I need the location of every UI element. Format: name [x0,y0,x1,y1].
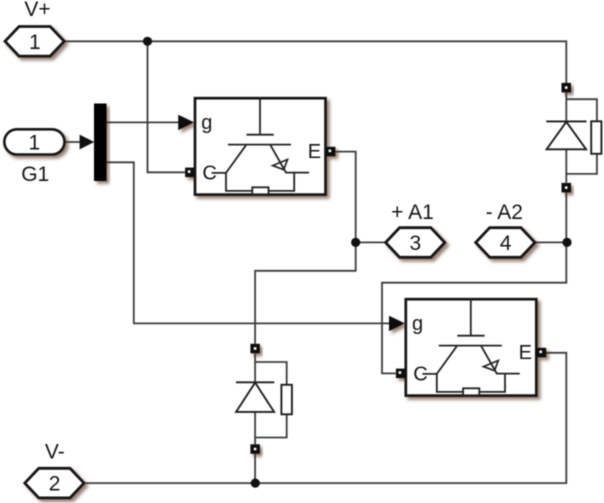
svg-text:- A2: - A2 [486,201,523,224]
svg-text:G1: G1 [21,163,49,186]
svg-text:+ A1: + A1 [391,201,434,224]
svg-text:V+: V+ [24,0,50,21]
svg-text:V-: V- [45,440,65,463]
svg-text:1: 1 [29,31,41,54]
svg-text:1: 1 [29,132,41,155]
svg-text:2: 2 [49,473,61,496]
svg-text:3: 3 [410,232,422,255]
svg-text:4: 4 [500,232,512,255]
